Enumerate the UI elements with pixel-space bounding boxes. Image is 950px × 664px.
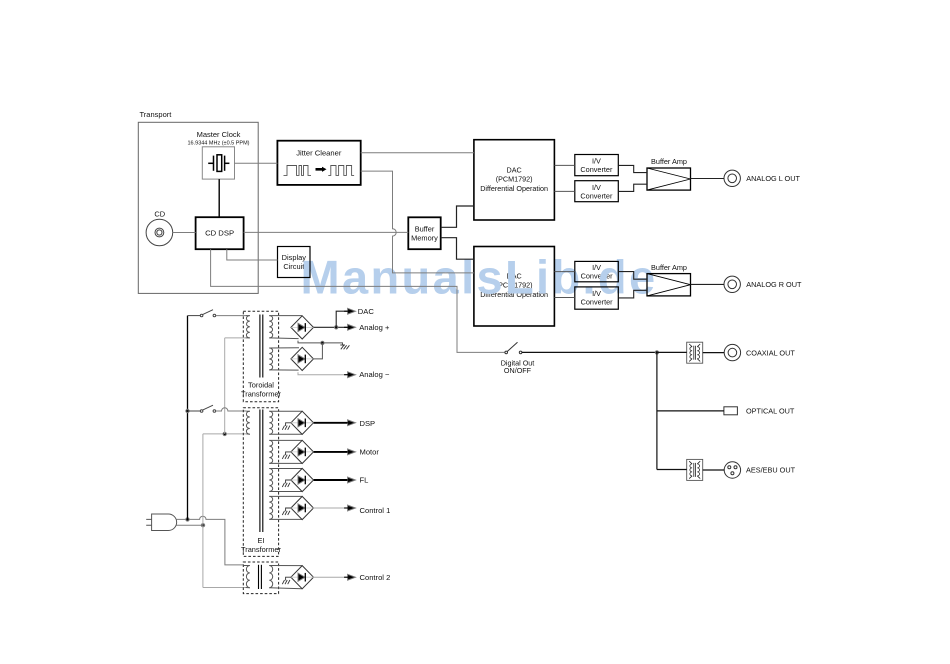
diode symbol D2 — [291, 358, 314, 360]
display circuit box — [278, 247, 311, 278]
wire buffer memory to DAC upper — [441, 206, 474, 227]
bridge rectifier DSP — [291, 411, 314, 434]
wire switch 1 to toroidal primary — [216, 315, 246, 317]
wire AES transformer to AES/EBU OUT — [703, 469, 725, 471]
transport enclosure box — [138, 122, 258, 293]
wire jitter cleaner to DAC lower with hop — [361, 171, 474, 273]
wire secondary to rectifier DSP — [269, 411, 302, 434]
chassis ground FL — [286, 480, 291, 483]
junction live node — [186, 518, 189, 521]
wire ground junction to rectifier D2 — [314, 343, 323, 359]
wire rectifier output Control 1 — [314, 507, 348, 509]
svg-text:Control 2: Control 2 — [360, 573, 391, 582]
EI transformer dashed box — [243, 408, 278, 557]
wire DAC upper to I/V 1 — [554, 164, 574, 166]
svg-text:Jitter Cleaner: Jitter Cleaner — [296, 148, 342, 157]
ANALOG R OUT RCA connector — [724, 276, 740, 292]
junction switch 2 tap — [186, 409, 189, 412]
arrow Control 2 — [348, 574, 356, 580]
diode symbol Control 1 — [291, 507, 314, 509]
jittery waveform icon — [284, 166, 312, 176]
bridge rectifier FL — [291, 468, 314, 491]
diode symbol Motor — [291, 451, 314, 453]
bridge rectifier D2 — [291, 347, 314, 370]
wire CD DSP digital out to switch — [211, 249, 505, 352]
svg-text:Buffer Amp: Buffer Amp — [651, 157, 687, 166]
wire master clock to jitter cleaner — [235, 162, 278, 164]
diode symbol D1 — [291, 326, 314, 328]
arrow Analog + — [348, 324, 356, 330]
svg-text:DAC: DAC — [358, 307, 375, 316]
CD disc symbol — [146, 219, 173, 246]
wire buffer memory to DAC lower — [441, 238, 474, 260]
digital out switch S3 — [505, 342, 522, 353]
I/V converter box 1 — [575, 155, 619, 176]
EI secondary winding Motor — [269, 440, 272, 463]
svg-text:Converter: Converter — [580, 165, 613, 174]
wire buffer amp R to ANALOG R OUT — [691, 283, 725, 285]
svg-text:Converter: Converter — [580, 191, 613, 200]
wire DAC lower to I/V 3 — [554, 271, 574, 273]
buffer amp L box + triangle — [647, 168, 691, 190]
wire neutral to EI transformer primary — [203, 433, 247, 435]
wire secondary to rectifier Control 2 — [269, 566, 302, 589]
wire neutral to control transformer — [203, 587, 246, 589]
arrow Control 1 — [348, 505, 356, 511]
CD DSP box U2 — [196, 217, 244, 249]
junction neutral node — [201, 524, 204, 527]
arrow FL — [348, 477, 356, 483]
master clock box U1 — [202, 147, 234, 179]
ANALOG L OUT RCA connector — [724, 170, 740, 186]
chassis ground Control 1 — [286, 508, 291, 511]
wire buffer amp L to ANALOG L OUT — [691, 178, 725, 180]
wire master clock to CD DSP — [218, 179, 220, 217]
arrow DSP — [348, 420, 356, 426]
wire DAC lower to I/V 4 — [554, 297, 574, 299]
wire switch 2 to EI primary with hop — [216, 408, 247, 411]
wire rectifier D2 to Analog - arrow — [298, 372, 348, 375]
buffer amp R box + triangle — [647, 274, 691, 296]
control transformer primary winding — [246, 566, 249, 588]
chassis ground DSP — [286, 423, 291, 426]
wire rectifier D1 output — [314, 326, 348, 328]
waveform arrow — [316, 167, 327, 172]
control transformer core — [259, 565, 262, 589]
junction DAC supply tap — [335, 326, 338, 329]
EI secondary winding Control 1 — [269, 496, 272, 519]
svg-text:CD: CD — [154, 209, 165, 218]
wire secondary2 to rectifier D2 — [269, 348, 299, 370]
wire jitter cleaner to DAC upper — [361, 152, 474, 154]
arrow DAC supply — [348, 308, 356, 314]
svg-text:ManualsLib.de: ManualsLib.de — [301, 250, 658, 303]
wire rectifier output Motor — [314, 451, 348, 453]
toroidal core — [260, 315, 263, 378]
EI secondary winding FL — [269, 469, 272, 492]
jitter cleaner box U3 — [277, 141, 360, 185]
wire plug live to junction — [177, 516, 244, 565]
wire rectifier D1 negative to ground junction — [298, 341, 343, 346]
junction digital out node — [655, 351, 658, 354]
svg-text:ON/OFF: ON/OFF — [504, 366, 532, 375]
toroidal primary winding — [246, 316, 249, 338]
wire I/V 3 to buffer amp R — [618, 272, 647, 280]
diode symbol Control 2 — [291, 576, 314, 578]
wire CD DSP to display circuit — [227, 249, 278, 260]
svg-text:Transformer: Transformer — [241, 545, 282, 554]
wire to OPTICAL OUT — [657, 410, 724, 412]
wire I/V 1 to buffer amp L — [618, 165, 647, 172]
svg-text:CD DSP: CD DSP — [205, 229, 234, 238]
wire secondary to rectifier FL — [269, 469, 302, 492]
svg-text:Motor: Motor — [360, 447, 380, 456]
wire secondary to rectifier Control 1 — [269, 496, 302, 519]
wire rectifier output FL — [314, 479, 348, 481]
buffer memory box U4 — [408, 217, 440, 249]
arrow Motor — [348, 449, 356, 455]
svg-text:Buffer: Buffer — [415, 225, 435, 234]
control transformer secondary winding — [269, 566, 272, 588]
wire rectifier output Control 2 — [314, 576, 348, 578]
chassis ground analog — [340, 345, 349, 349]
svg-text:FL: FL — [360, 476, 369, 485]
AES/EBU pulse transformer T4 — [687, 459, 703, 480]
junction analog ground — [321, 341, 324, 344]
svg-text:16.9344 MHz (±0.5 PPM): 16.9344 MHz (±0.5 PPM) — [187, 141, 249, 147]
AC plug P1 — [152, 514, 177, 531]
DAC PCM1792 box lower U6 — [474, 247, 555, 327]
toroidal secondary winding 2 — [269, 348, 272, 370]
EI core — [260, 410, 263, 533]
wire switch to digital out junction — [522, 351, 657, 353]
DAC PCM1792 box upper U5 — [474, 140, 555, 220]
AES/EBU XLR connector — [724, 462, 740, 478]
power switch S2 — [188, 405, 216, 412]
diode symbol FL — [291, 479, 314, 481]
wire DAC upper to I/V 2 — [554, 190, 574, 192]
svg-text:Differential Operation: Differential Operation — [480, 184, 548, 193]
I/V converter box 2 — [575, 181, 619, 202]
wire live vertical to switches — [187, 316, 189, 520]
svg-text:COAXIAL OUT: COAXIAL OUT — [746, 348, 795, 357]
svg-text:Control 1: Control 1 — [360, 506, 391, 515]
wire digital bus vertical — [656, 352, 658, 469]
wire toroidal primary return — [224, 338, 226, 434]
svg-text:Analog −: Analog − — [359, 370, 390, 379]
junction toroidal neutral — [223, 432, 226, 435]
EI secondary winding DSP — [269, 411, 272, 434]
OPTICAL OUT connector box — [724, 407, 738, 415]
crystal X1 symbol — [208, 155, 229, 172]
bridge rectifier Motor — [291, 440, 314, 463]
wire secondary1 to rectifier D1 — [269, 316, 302, 339]
svg-text:ANALOG L OUT: ANALOG L OUT — [746, 174, 800, 183]
svg-text:Master Clock: Master Clock — [197, 130, 241, 139]
diode symbol DSP — [291, 422, 314, 424]
I/V converter box 3 — [575, 261, 619, 281]
toroidal secondary winding 1 — [269, 316, 272, 338]
svg-text:DSP: DSP — [360, 419, 376, 428]
svg-text:Analog +: Analog + — [359, 323, 390, 332]
wire I/V 2 to buffer amp L — [618, 184, 647, 191]
toroidal transformer dashed box — [243, 311, 278, 402]
wire I/V 4 to buffer amp R — [618, 290, 647, 298]
wire junction to coaxial transformer — [657, 351, 687, 353]
wire neutral vertical — [202, 434, 204, 588]
COAXIAL OUT RCA connector — [724, 344, 740, 360]
wire rectifier output DSP — [314, 422, 348, 424]
control transformer dashed box T5 — [243, 562, 278, 594]
arrow Analog - — [348, 372, 356, 378]
power switch S1 — [188, 310, 216, 317]
coaxial pulse transformer T3 — [687, 342, 703, 363]
EI primary winding — [246, 411, 249, 434]
wire secondary to rectifier Motor — [269, 440, 302, 463]
wire CD to CD DSP — [173, 232, 196, 234]
clean waveform icon — [328, 166, 354, 176]
svg-text:Memory: Memory — [411, 234, 438, 243]
svg-text:OPTICAL OUT: OPTICAL OUT — [746, 407, 795, 416]
bridge rectifier D1 — [291, 316, 314, 339]
svg-text:Transformer: Transformer — [241, 389, 282, 398]
svg-text:Toroidal: Toroidal — [248, 380, 274, 389]
svg-text:AES/EBU OUT: AES/EBU OUT — [746, 465, 796, 474]
I/V converter box 4 — [575, 287, 619, 309]
svg-text:DAC: DAC — [507, 166, 522, 175]
wire coaxial transformer to COAXIAL OUT — [703, 352, 725, 354]
svg-text:Transport: Transport — [140, 110, 173, 119]
chassis ground Control 2 — [286, 577, 291, 580]
wire to DAC supply arrow — [336, 311, 348, 327]
wire plug neutral — [177, 524, 204, 526]
wire CD DSP to buffer memory — [244, 231, 409, 233]
bridge rectifier Control 1 — [291, 496, 314, 519]
svg-text:ANALOG R OUT: ANALOG R OUT — [746, 280, 802, 289]
svg-text:EI: EI — [258, 536, 265, 545]
chassis ground Motor — [286, 452, 291, 455]
wire to AES/EBU transformer — [657, 469, 687, 471]
bridge rectifier Control 2 — [291, 566, 314, 589]
svg-text:(PCM1792): (PCM1792) — [496, 175, 533, 184]
